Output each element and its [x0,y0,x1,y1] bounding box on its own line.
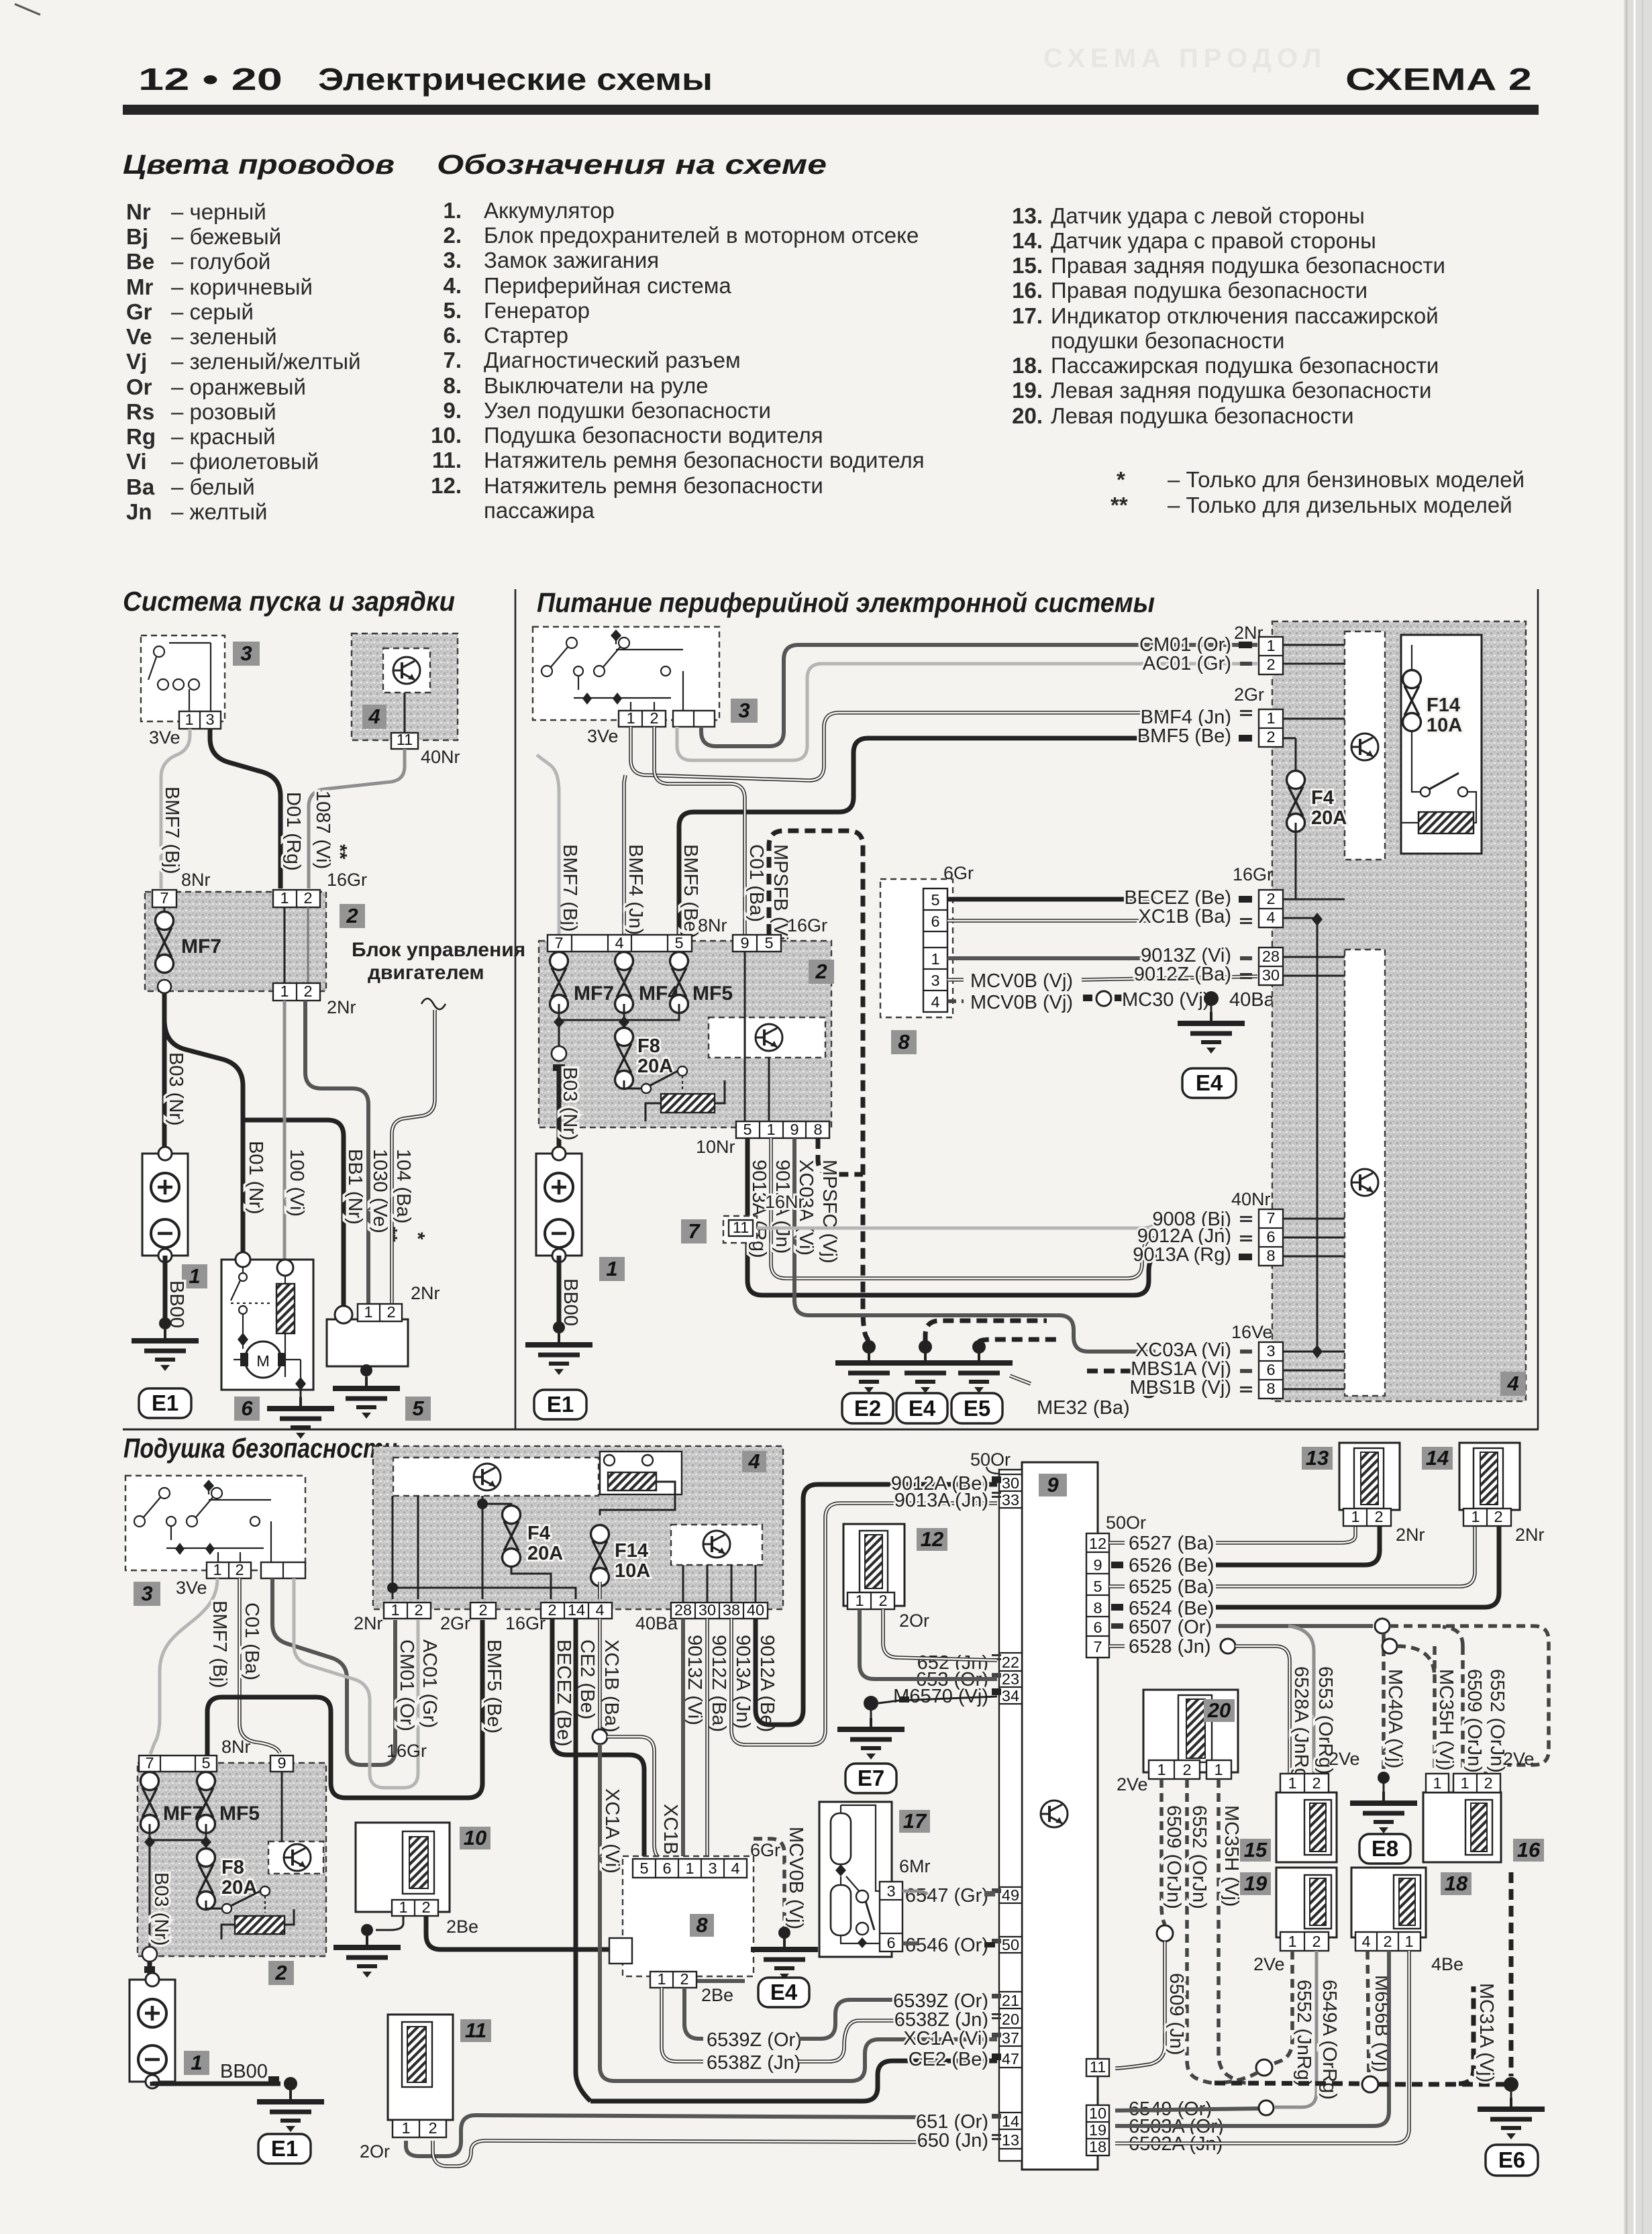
connector 1|3 of ignition switch [179,711,221,729]
svg-text:XC1B (Ba): XC1B (Ba) [1138,906,1231,927]
svg-text:33: 33 [1002,1491,1019,1509]
svg-text:1: 1 [399,1898,407,1916]
svg-text:650 (Jn): 650 (Jn) [917,2130,988,2151]
svg-text:Левая подушка безопасности: Левая подушка безопасности [1051,403,1354,428]
label 12 [917,1528,947,1551]
svg-text:6539Z (Or): 6539Z (Or) [707,2029,802,2051]
svg-text:7: 7 [1093,1638,1102,1656]
svg-text:2: 2 [303,889,312,907]
pin strip of 8 [923,888,947,1012]
wire MCV0B (Vj) dashed from pin 4 with inline connector MC30 [947,999,964,1003]
svg-text:СХЕМА 2: СХЕМА 2 [1345,62,1532,97]
starter solenoid (hatched) [276,1284,295,1333]
svg-text:1: 1 [657,1970,666,1988]
svg-text:подушки безопасности: подушки безопасности [1051,328,1284,353]
svg-text:CE2 (Be): CE2 (Be) [909,2049,988,2070]
svg-text:Be: Be [126,249,154,274]
blank tab on left of unit 8 [609,1938,632,1964]
svg-text:13: 13 [1306,1446,1329,1470]
wire M656B (Vj) dashed [1367,1951,1369,2076]
pretensioner 11 (driver) [388,2015,453,2120]
transistor [1351,1169,1378,1196]
svg-text:18: 18 [1445,1872,1468,1895]
svg-text:Обозначения на схеме: Обозначения на схеме [437,149,827,180]
svg-text:Датчик удара с правой стороны: Датчик удара с правой стороны [1051,228,1376,253]
relay wiring [1412,732,1421,792]
svg-text:MBS1B (Vj): MBS1B (Vj) [1130,1377,1231,1399]
svg-text:2Ve: 2Ve [1117,1774,1148,1794]
wire B01 (Nr) branch to starter [164,1020,243,1257]
peripheral unit 4 (big grey box right) [1272,621,1526,1401]
wire 9012Z (Ba) double [707,1619,745,1960]
label 5 [405,1397,431,1421]
starter motor M [245,1341,281,1378]
svg-text:2Gr: 2Gr [1234,684,1264,705]
svg-text:2: 2 [1266,890,1275,907]
svg-text:20A: 20A [527,1543,563,1564]
svg-text:2: 2 [1383,1933,1392,1950]
label 8 [690,1914,714,1937]
svg-text:2Ve: 2Ve [1329,1749,1360,1769]
squib (hatched) [865,1535,882,1588]
svg-text:Генератор: Генератор [484,298,590,323]
svg-text:AC01 (Gr): AC01 (Gr) [1143,653,1231,674]
svg-text:4: 4 [1506,1372,1518,1395]
svg-text:19: 19 [1244,1872,1268,1895]
svg-text:1: 1 [606,1257,617,1280]
wire 6507 (Or) [1111,1623,1123,1629]
svg-text:– белый: – белый [171,474,255,499]
wire 6549 (Or) from unit 9 pin 10 [1115,2109,1259,2111]
svg-text:6Mr: 6Mr [899,1856,931,1876]
svg-text:4: 4 [747,1450,760,1473]
top pin strip [548,935,692,952]
fuse box 2 (grey dashed) [138,1763,326,1956]
top pin strip 7..5 [139,1756,217,1772]
wire XC1B (Ba) double with junction [598,1619,602,1729]
label 2 [340,904,365,928]
svg-text:8: 8 [898,1030,910,1054]
ground node [284,2077,297,2090]
svg-text:Vi: Vi [126,449,147,474]
pin 11 of unit 4 [404,693,406,733]
svg-text:8: 8 [813,1121,822,1138]
svg-text:19: 19 [1089,2121,1106,2139]
svg-text:Rg: Rg [126,424,156,449]
fuse MF7 [141,1772,159,1833]
svg-text:BMF5 (Be): BMF5 (Be) [483,1639,505,1733]
white window 2 [1345,950,1385,1396]
bus joining fuses [150,1824,206,1840]
svg-text:4: 4 [1266,909,1275,926]
svg-text:1: 1 [1471,1508,1480,1525]
label 15 [1240,1839,1271,1862]
unit 4 pin column 4 [1259,948,1283,985]
MF7 lower leg [149,1824,151,1949]
svg-text:4Be: 4Be [1431,1954,1463,1974]
svg-text:6538Z (Jn): 6538Z (Jn) [707,2052,801,2074]
label 3 [731,699,758,723]
wire B03 (Nr) [148,1961,152,1980]
svg-text:8: 8 [1266,1380,1275,1397]
wire BMF7 (Bj) into fuse box [537,755,559,935]
svg-text:Система пуска и зарядки: Система пуска и зарядки [123,586,455,617]
svg-text:XC1A (Vi): XC1A (Vi) [903,2028,988,2049]
svg-text:2Ve: 2Ve [1253,1954,1285,1974]
svg-text:20A: 20A [1311,807,1347,829]
wire MC31A (Vj) dashed rising from bus [1459,1986,1474,2084]
label 4 [362,705,386,729]
svg-text:1: 1 [280,982,289,1000]
ground label E4 [1182,1068,1236,1098]
wire 651 (Or) [406,2115,926,2156]
ground label E1 [139,1388,191,1418]
svg-text:1: 1 [1214,1761,1223,1778]
svg-text:1: 1 [1266,637,1275,654]
svg-text:50: 50 [1002,1936,1019,1953]
svg-text:2: 2 [1494,1508,1502,1525]
svg-text:Датчик удара с левой стороны: Датчик удара с левой стороны [1051,203,1365,228]
ground label E1 [258,2134,311,2164]
wire BB00 [152,2082,280,2084]
starter internals: switch and solenoid [231,1267,301,1382]
wire C01 (Ba) double [654,727,745,935]
svg-text:16Gr: 16Gr [1233,864,1273,884]
svg-text:6: 6 [931,913,939,930]
svg-text:6: 6 [886,1934,895,1951]
svg-text:5.: 5. [443,298,462,323]
section divider: right border of top-right diagram [1537,589,1539,1429]
svg-text:Vj: Vj [126,349,147,374]
svg-text:5: 5 [412,1397,424,1420]
node: MF7 output [158,980,171,993]
relay window [600,1452,682,1494]
transistor [1351,733,1378,760]
svg-text:12: 12 [921,1527,943,1551]
fuse MF7 [164,907,166,913]
left airbag 20 [1143,1690,1238,1772]
wire 6539Z (Or) from unit 8 pin 2 [684,1988,703,2039]
label 1 [182,1264,207,1288]
svg-text:5: 5 [743,1121,752,1138]
svg-text:11.: 11. [432,448,462,472]
inline connector on MC35H feed [1382,1639,1397,1654]
svg-text:16Gr: 16Gr [327,870,367,890]
unit 4 of airbag section (grey dashed box top) [373,1446,783,1609]
wire C01 (Ba) double [240,1578,280,1753]
svg-text:– коричневый: – коричневый [171,274,313,299]
fuse box 2 (grey dashed) [539,941,831,1127]
ignition switch 3 (dashed box) [141,636,225,721]
svg-text:20A: 20A [637,1056,673,1077]
svg-text:1: 1 [1288,1774,1296,1792]
wire 6525 (Ba) double [1109,1584,1125,1588]
right page-edge scan strip [1624,0,1652,2234]
ground node 40Ba [1204,991,1219,1006]
svg-text:7: 7 [160,889,168,907]
svg-text:B03 (Nr): B03 (Nr) [150,1872,172,1946]
battery 1 [536,1147,582,1262]
svg-text:15: 15 [1244,1838,1268,1862]
wire MCV0B (Vj) double from pin 3 [947,978,964,982]
white window 2 with transistor [671,1525,762,1565]
right airbag 16 [1423,1792,1501,1862]
svg-text:F8: F8 [221,1857,244,1878]
svg-text:6: 6 [1093,1619,1102,1636]
svg-text:40Ba: 40Ba [1229,989,1276,1011]
svg-text:6528 (Jn): 6528 (Jn) [1129,1636,1211,1658]
svg-text:ME32 (Ba): ME32 (Ba) [1037,1397,1130,1419]
squiggle continuation symbol [421,999,446,1009]
ground node E6 [1504,2077,1518,2092]
svg-text:10: 10 [464,1826,486,1849]
svg-text:Стартер: Стартер [484,323,568,348]
steering wheel switches 8 connector [880,879,953,1017]
svg-text:4: 4 [931,993,939,1011]
svg-text:8: 8 [696,1913,708,1937]
svg-text:2: 2 [1266,728,1275,746]
svg-text:16Nr: 16Nr [765,1192,805,1212]
svg-text:1: 1 [766,1121,775,1138]
relay contact [206,1900,221,1909]
svg-text:100 (Vi): 100 (Vi) [286,1149,307,1217]
svg-text:MF5: MF5 [692,982,733,1005]
svg-text:1: 1 [1404,1933,1413,1950]
svg-text:– серый: – серый [171,299,254,324]
designations list 1-12 [431,198,925,523]
svg-text:6: 6 [1266,1228,1275,1246]
wire M6570 (Vj) with ground [864,1696,878,1711]
svg-text:38: 38 [723,1601,740,1619]
wire MPSFB (Vj) dashed [769,831,868,1341]
svg-text:2: 2 [548,1601,556,1619]
svg-text:2Ve: 2Ve [1503,1749,1535,1769]
indicator 17 [819,1802,892,1957]
svg-text:E6: E6 [1498,2147,1525,2172]
svg-text:Индикатор отключения пассажирс: Индикатор отключения пассажирской [1051,303,1439,328]
svg-text:8: 8 [1093,1599,1102,1617]
svg-text:*: * [1117,467,1125,492]
svg-text:1: 1 [1266,709,1275,727]
svg-text:1: 1 [855,1592,864,1609]
svg-text:2: 2 [650,709,658,727]
svg-text:37: 37 [1002,2029,1019,2047]
label 2 [268,1961,294,1985]
svg-text:Подушка безопасности: Подушка безопасности [123,1433,397,1464]
section divider: horizontal between top and bottom diagrams [123,1429,1539,1431]
svg-text:1: 1 [191,2051,202,2074]
fuse F8 20A [205,1842,207,1849]
alternator ground [360,1364,372,1376]
wire BB00 [163,1256,168,1321]
svg-text:3Ve: 3Ve [149,727,180,748]
svg-text:6552 (OrJn): 6552 (OrJn) [1188,1805,1210,1909]
svg-text:2Or: 2Or [899,1611,929,1631]
svg-text:6: 6 [662,1860,671,1877]
svg-text:Ve: Ve [126,324,152,349]
svg-text:16Gr: 16Gr [386,1741,427,1761]
svg-text:3: 3 [205,711,214,728]
svg-text:B03 (Nr): B03 (Nr) [559,1067,580,1141]
svg-text:9013A (Jn): 9013A (Jn) [732,1635,754,1729]
svg-text:17.: 17. [1012,303,1043,328]
svg-text:6528A (JnRg): 6528A (JnRg) [1290,1666,1312,1785]
label 19 [1240,1872,1271,1895]
wire 6503A (Or) [1115,1951,1389,2126]
svg-text:Подушка безопасности водителя: Подушка безопасности водителя [484,423,823,448]
svg-text:**: ** [379,1227,401,1242]
label 3 [134,1582,160,1606]
svg-text:2: 2 [1484,1774,1492,1792]
battery 1 [130,1973,175,2088]
svg-text:2: 2 [414,1601,423,1619]
ignition switch 3 contacts [550,636,683,711]
svg-text:Gr: Gr [126,299,152,324]
pin 2 (2Gr) [470,1603,496,1619]
svg-text:Узел подушки безопасности: Узел подушки безопасности [484,398,771,423]
svg-text:9013A (Jn): 9013A (Jn) [894,1490,988,1511]
svg-text:MPSFC (Vj): MPSFC (Vj) [819,1160,840,1264]
ground node and symbol [553,1321,565,1333]
fuse MF4 [615,952,633,1013]
svg-text:F14: F14 [1427,695,1460,716]
wire 6524 (Be) thick [1111,1604,1123,1611]
pin row 2|14|4 (16Gr) [541,1603,612,1619]
wire 653 (Or) [860,1609,997,1679]
dashed bus to ground E6 [1215,2083,1362,2084]
svg-text:BB00: BB00 [220,2061,268,2082]
white relay window [1401,635,1482,854]
wire 6502A (Jn) double [1115,1951,1409,2143]
svg-text:9013A (Rg): 9013A (Rg) [1133,1244,1231,1266]
svg-text:– черный: – черный [171,199,266,224]
ignition switch 3 (dashed box) [533,627,719,720]
svg-text:30: 30 [1002,1474,1019,1492]
svg-text:13.: 13. [1012,203,1043,228]
svg-text:5: 5 [674,934,683,952]
rear right airbag 15 [1276,1792,1337,1862]
svg-text:F4: F4 [527,1523,550,1544]
connector 1|2 [207,1562,251,1578]
svg-text:– зеленый/желтый: – зеленый/желтый [171,349,361,374]
svg-text:2Or: 2Or [360,2141,390,2162]
svg-text:20: 20 [1002,2011,1019,2028]
svg-text:Цвета проводов: Цвета проводов [123,149,395,180]
svg-text:СХЕМА ПРОДОЛ: СХЕМА ПРОДОЛ [1043,44,1327,73]
pin strip of 17 [880,1882,902,1951]
svg-text:10A: 10A [615,1560,650,1582]
wire B03 (Nr) [162,993,167,1154]
ground under MC30 [1210,1005,1212,1013]
svg-text:Аккумулятор: Аккумулятор [484,198,615,223]
svg-text:47: 47 [1002,2050,1019,2068]
ground node [778,1927,790,1939]
svg-text:1: 1 [1460,1774,1469,1792]
svg-text:20: 20 [1207,1698,1231,1722]
label 14 [1422,1447,1453,1470]
svg-text:16Gr: 16Gr [505,1613,546,1633]
svg-text:MC31A (Vj): MC31A (Vj) [1476,1983,1497,2082]
blank connector [261,1562,305,1578]
svg-text:1030 (Ve): 1030 (Ve) [369,1149,391,1233]
label 1 [599,1257,625,1281]
svg-text:– желтый: – желтый [171,499,267,524]
wire BMF4 (Jn) double [631,713,1165,780]
airbag control unit 9 (tall box) [1022,1462,1098,2170]
connector 1|2 of ignition switch [619,711,666,727]
left pin cells of unit 9 [999,1474,1022,2149]
svg-text:30: 30 [1262,966,1280,984]
svg-text:20.: 20. [1012,403,1043,428]
ignition switch 3 (dashed box) [125,1476,305,1570]
svg-text:8: 8 [1266,1247,1275,1264]
wire 6526 (Be) thick [1111,1562,1123,1568]
grounds E2 E4 E5 [862,1340,876,1354]
svg-text:BMF7 (Bj): BMF7 (Bj) [209,1601,230,1688]
svg-text:2Nr: 2Nr [1515,1525,1545,1545]
svg-text:1: 1 [185,711,193,728]
svg-text:23: 23 [1002,1670,1019,1688]
svg-text:Rs: Rs [126,399,154,424]
svg-text:BB1 (Nr): BB1 (Nr) [344,1149,366,1225]
svg-text:14: 14 [1002,2113,1019,2130]
svg-text:XC1A (Vi): XC1A (Vi) [601,1788,623,1874]
svg-text:2: 2 [1374,1508,1383,1525]
wire BMF7 (Bj) [161,729,190,888]
connector 1|2 + 1 of 20 [1149,1760,1200,1779]
svg-text:1: 1 [931,950,939,968]
wire 652 (Jn) double [883,1609,997,1660]
svg-text:MF5: MF5 [219,1803,260,1825]
header rule bar [123,105,1539,115]
svg-text:18.: 18. [1012,353,1043,378]
svg-text:7: 7 [688,1219,701,1243]
svg-text:– розовый: – розовый [171,399,276,424]
svg-text:6525 (Ba): 6525 (Ba) [1129,1576,1214,1598]
svg-text:8.: 8. [443,373,462,398]
wire CM01 (Or): switch to unit 4 pin 1 [701,645,1257,746]
label 10 [460,1827,491,1849]
svg-text:2Be: 2Be [446,1917,478,1937]
svg-text:11: 11 [397,731,413,748]
svg-text:16.: 16. [1012,278,1043,303]
wire MC40A (Vj) dashed to ground E8 [1382,1633,1386,1772]
connector 9|5 (16Gr) [733,935,781,952]
svg-text:3: 3 [738,699,750,722]
section divider: vertical between top-left and top-right diagrams [515,589,517,1429]
svg-text:E7: E7 [858,1766,884,1790]
svg-text:Выключатели на руле: Выключатели на руле [484,373,709,398]
svg-text:MC35H (Vj): MC35H (Vj) [1221,1805,1242,1907]
svg-text:6Gr: 6Gr [750,1840,780,1860]
wire BMF5 (Be) thick [679,738,1165,935]
svg-text:Ba: Ba [126,474,155,499]
svg-text:Левая задняя подушка безопасно: Левая задняя подушка безопасности [1051,378,1431,403]
svg-text:7: 7 [145,1754,154,1772]
svg-text:XC1B (Ba): XC1B (Ba) [601,1639,622,1733]
svg-text:10: 10 [1089,2104,1106,2122]
wire 6546 (Or) [902,1941,918,1945]
svg-text:MCV0B (Vj): MCV0B (Vj) [970,992,1073,1013]
svg-text:E4: E4 [770,1980,798,2004]
wire BECEZ (Be) [552,1619,644,1859]
svg-text:Jn: Jn [126,499,152,524]
fuse F8 20A [623,1022,625,1028]
svg-text:12 • 20: 12 • 20 [138,62,282,97]
svg-text:Bj: Bj [126,224,148,249]
svg-text:3: 3 [141,1582,152,1605]
fuse F14 10A [1403,670,1421,731]
